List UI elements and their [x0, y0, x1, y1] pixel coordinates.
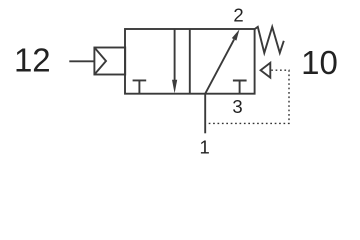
svg-text:12: 12	[14, 42, 51, 79]
svg-text:1: 1	[200, 136, 210, 157]
svg-text:2: 2	[233, 5, 243, 26]
svg-text:3: 3	[232, 96, 242, 117]
svg-text:10: 10	[301, 44, 338, 81]
